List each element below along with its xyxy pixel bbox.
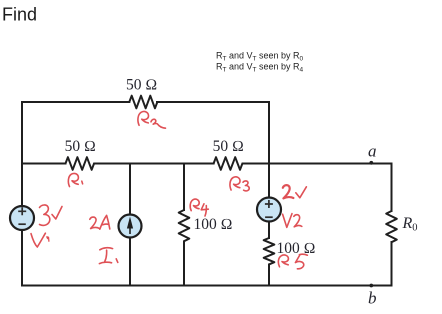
- svg-text:50 Ω: 50 Ω: [65, 138, 96, 155]
- svg-text:RT and VT seen by R4: RT and VT seen by R4: [216, 62, 304, 74]
- svg-text:b: b: [368, 289, 377, 308]
- svg-text:R0: R0: [402, 215, 418, 234]
- svg-text:Find: Find: [2, 5, 37, 25]
- svg-text:50 Ω: 50 Ω: [126, 76, 157, 93]
- svg-text:a: a: [368, 142, 377, 161]
- svg-text:50 Ω: 50 Ω: [213, 138, 244, 155]
- svg-text:100 Ω: 100 Ω: [194, 216, 233, 233]
